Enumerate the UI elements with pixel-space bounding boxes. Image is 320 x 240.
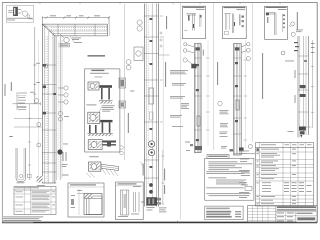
column separator lines [163, 2, 252, 219]
detail box R [116, 182, 144, 220]
frame left [1, 2, 3, 222]
legend caption text lines [7, 18, 32, 21]
P3 inner profile [266, 13, 282, 35]
label bar above notes [207, 155, 229, 159]
dim text under U-profile [17, 181, 25, 184]
dimension numbers [29, 15, 101, 19]
T1 dotted infill [147, 4, 150, 184]
dimension line above corner band [42, 16, 110, 24]
detail box P1 top [182, 6, 205, 39]
rotated label left of T1 [143, 164, 144, 176]
small texts right of band [62, 116, 70, 167]
narrow column circle pair [126, 60, 131, 70]
strip C cross ticks [298, 56, 309, 112]
legend circle symbol [21, 11, 30, 18]
strip C side texts [285, 61, 296, 132]
circled numbers cluster mid right of band [58, 86, 68, 104]
T1 anchor dark blob [147, 197, 162, 205]
dim tick labels left of band [30, 63, 40, 93]
strip B top circles right [241, 43, 250, 61]
narrow column lower circles [120, 146, 124, 155]
strip B annotations left [220, 110, 229, 149]
frame bottom [2, 221, 317, 223]
heading above montage box [88, 55, 106, 56]
title block inner cells [276, 212, 317, 223]
strip A center dark marks [191, 47, 200, 141]
mini position list mid-left [17, 92, 27, 110]
horizontal dim line mid-left [13, 102, 41, 105]
corner band dotted infill [50, 27, 107, 31]
title block outer [248, 206, 318, 223]
strip C (right section) [298, 36, 309, 138]
left vertical dimension line [33, 27, 36, 104]
circle mark in U-profile [20, 174, 23, 177]
strip B cross ticks [233, 58, 241, 134]
parts table cell texts [261, 149, 280, 204]
T1 top circles left [137, 20, 142, 31]
bolt head dark circle right of band [57, 149, 62, 154]
strip A cross ticks [194, 58, 201, 130]
T1 bolt circles [148, 141, 154, 156]
scale note right of montage box [130, 91, 134, 92]
notes text lines [206, 161, 252, 196]
rotated text right of strip A top [203, 50, 204, 56]
small cross marks left margin of strips [158, 32, 170, 56]
top frame ticks [40, 2, 280, 4]
BOM table bottom-left [14, 187, 56, 215]
boxed code in notes [245, 187, 252, 191]
leader circle under corner [60, 34, 69, 43]
parts table qty numbers right [284, 149, 312, 204]
right dim line of strip C [306, 40, 315, 128]
U-profile end detail bottom-left [16, 148, 25, 181]
narrow column small box 2 [119, 101, 126, 108]
box L side marks [71, 190, 83, 208]
parts table header texts [261, 143, 312, 146]
vertical band (left mullion elevation) [42, 24, 62, 183]
montage box title [91, 70, 104, 71]
title block cell texts [277, 213, 313, 222]
hatch at band bottom [37, 176, 43, 183]
BOM cell texts [16, 191, 56, 213]
BOM header text [15, 187, 39, 188]
stamp box below notes [205, 206, 243, 220]
detail box P2 [223, 7, 247, 39]
strip C top side marks [294, 42, 299, 51]
strip B center dark marks [235, 47, 240, 122]
T1 bottom small marks [141, 202, 155, 211]
scene 1 bench [99, 85, 113, 103]
strip B rotated label [217, 62, 218, 85]
rotated text label x166 [166, 16, 167, 29]
strip B dark blob bottom [239, 148, 244, 152]
small dark fittings on band [43, 64, 56, 114]
caption above corner scene [89, 156, 99, 157]
drawing number cell [297, 216, 317, 222]
ticks right of strip A [206, 40, 210, 146]
strip A annotations left [170, 70, 189, 127]
box L inner square detail [84, 194, 102, 215]
strip C circled number [281, 51, 285, 55]
rotated margin label left [5, 82, 13, 137]
faint dim texts above notes box [233, 152, 255, 155]
box R inner profiles [120, 190, 139, 215]
T1 cross ticks [144, 16, 158, 178]
frame top [2, 1, 317, 3]
frame right [316, 2, 318, 222]
corner detail box L [68, 183, 104, 217]
frame tick bottom [176, 221, 178, 224]
strip A rotated label [165, 62, 166, 87]
narrow column small box 1 [119, 78, 126, 88]
leader label box [59, 44, 70, 47]
parts table [256, 143, 314, 207]
strip B slot [236, 100, 239, 110]
parts table pos column marks [257, 153, 259, 204]
strip A (section) [194, 44, 201, 153]
circled number on dim [34, 99, 38, 103]
T1 slot rects [149, 88, 154, 104]
vertical band dotted infill [45, 37, 48, 183]
circled numbers left of band lower [37, 123, 41, 148]
leader circles right of P3 [289, 22, 295, 37]
label box in U-profile [28, 174, 32, 177]
freestanding corner scene [86, 162, 119, 178]
scene 1 frame square [88, 82, 99, 90]
circled number above equations [248, 145, 252, 149]
scene 3 rail bars [103, 141, 117, 147]
T1 detail box with circle [134, 47, 143, 61]
strip B (section) [233, 44, 241, 156]
leader texts under band [72, 38, 82, 43]
dim line right of T1 [161, 150, 164, 204]
rotated label above strip C [297, 12, 298, 30]
P1 inner profile [184, 14, 201, 31]
T1 center dark marks [150, 18, 153, 168]
rotated dim numbers right of T1 [164, 169, 165, 195]
circled number mid strip A right [218, 101, 222, 105]
scene 2 frame square [88, 112, 100, 123]
strip A slot [197, 116, 200, 126]
circled position numbers right of band [44, 64, 63, 121]
T1 dark circles bottom [149, 183, 153, 187]
revision grid [248, 206, 276, 223]
parts table pos glyph [257, 148, 259, 151]
scene 2 bench [88, 120, 113, 136]
title block texts [277, 206, 316, 210]
scene 3 frame square [88, 140, 102, 150]
ticks right of T1 [160, 16, 163, 122]
equations column left of parts table [239, 151, 250, 198]
P2 inner profile [225, 14, 234, 35]
tiny texts left of stamp box [159, 142, 190, 213]
narrow column rotated label [128, 113, 129, 133]
parts table column lines [260, 143, 306, 207]
mitre diagonal [42, 24, 55, 36]
bottom-left notes text block [3, 216, 43, 222]
strip C bottom dark cluster [299, 127, 306, 138]
parts table row lines [256, 148, 314, 203]
tall strip T1 (vertical section) [144, 4, 158, 207]
strip A top circles [183, 43, 194, 65]
band outer faint line [38, 40, 40, 178]
vertical band cross ticks [42, 65, 56, 172]
corner band cross ticks [58, 24, 95, 36]
strip A bottom marks [186, 142, 202, 151]
band bottom dim texts [37, 152, 69, 186]
lower left dimension line [14, 104, 42, 180]
legend profile dark block [8, 7, 21, 16]
corner band horizontal (mullion section) [42, 24, 109, 36]
detail box P3 [265, 6, 288, 39]
strip C rotated label [262, 53, 263, 99]
scene 1 caption [86, 104, 114, 111]
narrow column thin line [124, 4, 126, 160]
ticks right of strip B [244, 40, 248, 148]
leader diagonal left of T1 [140, 162, 144, 169]
montage detail box [85, 69, 120, 152]
strip C dark marks [300, 60, 308, 97]
legend box top-left [6, 6, 33, 23]
notes box [205, 158, 254, 200]
